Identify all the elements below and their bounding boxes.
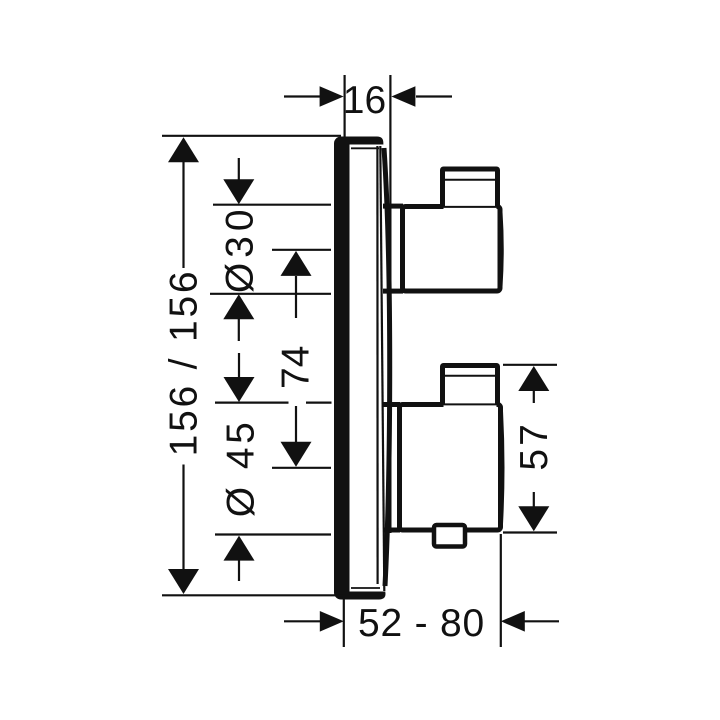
svg-text:Ø30: Ø30 [219, 204, 262, 293]
svg-text:Ø 45: Ø 45 [220, 419, 263, 518]
svg-text:16: 16 [343, 79, 386, 122]
svg-text:156 / 156: 156 / 156 [163, 269, 206, 457]
svg-text:57: 57 [513, 421, 556, 470]
svg-text:52 - 80: 52 - 80 [358, 602, 485, 645]
svg-text:74: 74 [275, 346, 318, 389]
